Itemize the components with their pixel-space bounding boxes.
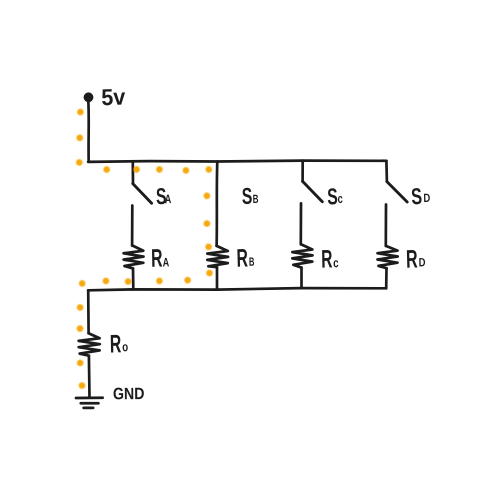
svg-text:R: R xyxy=(236,245,248,273)
svg-text:5v: 5v xyxy=(101,84,126,111)
switch SC (open) stub and blade xyxy=(301,161,304,182)
wire R0 to ground xyxy=(88,356,91,398)
wire RC to bottom bus xyxy=(300,268,303,289)
wire SC branch lower lead xyxy=(299,203,302,244)
svg-text:A: A xyxy=(163,255,170,269)
current dots: SB branch xyxy=(204,193,213,277)
switch SB (closed) wire xyxy=(215,162,218,246)
svg-text:c: c xyxy=(337,191,342,206)
wire top bus xyxy=(88,161,386,162)
wire RD to bottom bus xyxy=(385,268,388,288)
wire SD branch lower lead xyxy=(384,205,387,247)
svg-text:c: c xyxy=(333,255,339,270)
resistor RB xyxy=(207,246,228,267)
svg-text:S: S xyxy=(410,183,423,210)
current dots: 5V feed xyxy=(76,109,84,166)
svg-text:B: B xyxy=(253,192,259,206)
svg-text:S: S xyxy=(327,183,338,209)
switch SA (open) stub and blade xyxy=(131,162,134,184)
wire bottom bus to R0 xyxy=(87,290,90,333)
resistor RC xyxy=(292,244,312,267)
wire RA to bottom bus xyxy=(132,268,135,289)
node 5V terminal dot xyxy=(84,92,94,102)
current dots: bottom bus xyxy=(79,277,191,287)
current dots: R0 branch xyxy=(77,304,86,389)
svg-text:R: R xyxy=(321,245,333,273)
svg-text:A: A xyxy=(165,192,172,206)
svg-text:GND: GND xyxy=(113,385,145,403)
svg-text:S: S xyxy=(241,183,252,209)
svg-text:R: R xyxy=(110,330,122,358)
svg-text:R: R xyxy=(406,246,418,274)
svg-text:D: D xyxy=(419,255,426,269)
wire RB to bottom bus xyxy=(216,267,219,290)
wire SA branch lower lead xyxy=(131,206,134,246)
wire bottom bus xyxy=(88,288,386,290)
switch SD (open) stub and blade xyxy=(385,161,388,182)
svg-text:D: D xyxy=(423,191,430,205)
resistor R0 xyxy=(79,333,100,356)
resistor RD xyxy=(378,246,398,268)
svg-text:o: o xyxy=(122,339,128,354)
wire 5V feed vertical xyxy=(87,101,90,162)
resistor RA xyxy=(124,246,144,269)
ground symbol xyxy=(76,396,103,399)
svg-text:R: R xyxy=(151,245,163,273)
current dots: top bus xyxy=(103,166,212,174)
svg-text:B: B xyxy=(249,255,255,269)
